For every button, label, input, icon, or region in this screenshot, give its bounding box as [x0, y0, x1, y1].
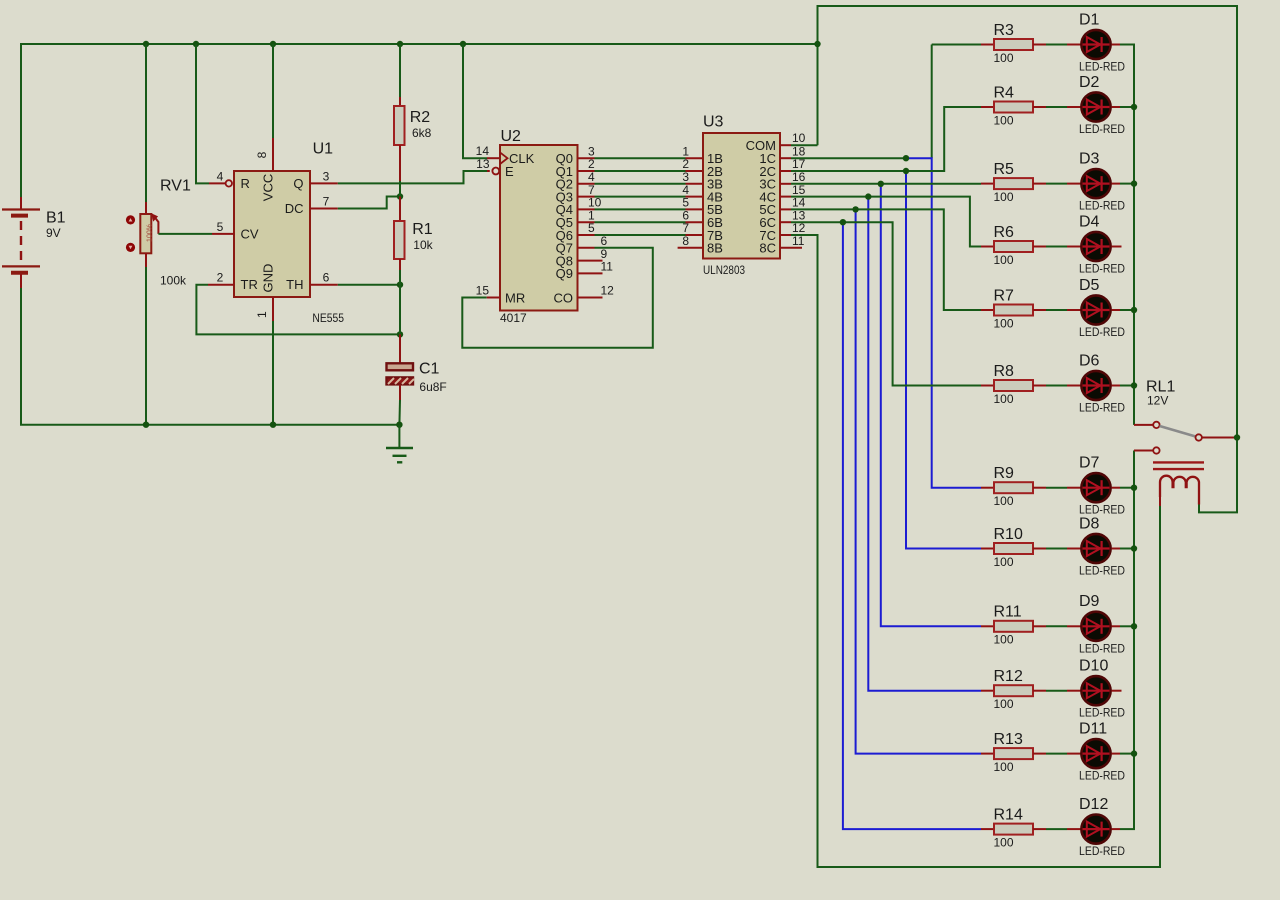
node 1C tap — [903, 155, 909, 161]
svg-text:6u8F: 6u8F — [419, 380, 446, 394]
svg-text:8B: 8B — [707, 241, 723, 256]
svg-text:8C: 8C — [759, 241, 776, 256]
resistor R1 10k — [394, 197, 434, 271]
svg-text:R1: R1 — [412, 221, 433, 238]
svg-text:100: 100 — [994, 51, 1014, 65]
resistor R5 100 — [981, 161, 1046, 204]
wire VCC to U1 pin8 — [272, 44, 274, 138]
LED D2 LED-RED — [1067, 74, 1135, 136]
svg-text:10k: 10k — [413, 238, 433, 252]
wire U2 pin15 MR loop from Q7 — [578, 247, 595, 249]
svg-text:VCC: VCC — [261, 174, 276, 201]
node bus junction y=107 — [1131, 104, 1137, 110]
svg-text:R11: R11 — [994, 604, 1022, 621]
wire U1 pin3 Q to U2 pin13 E — [310, 182, 338, 184]
svg-text:8: 8 — [682, 234, 689, 248]
svg-text:100: 100 — [994, 760, 1014, 774]
svg-text:TH: TH — [286, 277, 303, 292]
svg-text:U2: U2 — [501, 128, 522, 145]
wire RV1 wiper to U1 pin5 CV — [158, 233, 212, 235]
svg-text:100: 100 — [994, 253, 1014, 267]
svg-text:3: 3 — [323, 169, 330, 183]
svg-text:11: 11 — [792, 234, 805, 248]
resistor R9 100 — [981, 465, 1046, 508]
wire ground bottom rail — [20, 424, 399, 426]
resistor R11 100 — [981, 604, 1046, 647]
node bus junction y=548.5 — [1131, 545, 1137, 551]
svg-text:6k8: 6k8 — [412, 126, 432, 140]
wire U2 Q0 (pin 3) to U3 1B (pin 1) — [578, 157, 595, 159]
wire U3 pin11 8C stub — [780, 247, 802, 249]
svg-text:15: 15 — [476, 284, 490, 298]
svg-text:RV1: RV1 — [160, 177, 191, 194]
svg-text:LED-RED: LED-RED — [1079, 199, 1125, 213]
svg-text:D2: D2 — [1079, 74, 1100, 91]
svg-text:100%: 100% — [147, 224, 154, 242]
resistor R13 100 — [981, 731, 1046, 774]
node ground rail x=273 — [270, 422, 276, 428]
node 6C tap — [840, 219, 846, 225]
svg-text:DC: DC — [285, 201, 304, 216]
svg-text:R8: R8 — [994, 363, 1015, 380]
svg-text:LED-RED: LED-RED — [1079, 769, 1125, 783]
wire VCC top loop to right column — [818, 6, 1238, 512]
svg-text:100k: 100k — [160, 274, 187, 288]
svg-text:R5: R5 — [994, 161, 1015, 178]
wire cathode bus D7-D12 from relay NC — [1133, 451, 1135, 830]
node top rail junction x=400 — [397, 41, 403, 47]
relay RL1 12V switch — [1134, 379, 1234, 454]
wire U3 pin17 2C to R4 and R10 — [780, 170, 791, 172]
svg-text:100: 100 — [994, 494, 1014, 508]
svg-text:LED-RED: LED-RED — [1079, 564, 1125, 578]
LED D4 LED-RED — [1067, 213, 1125, 275]
node top rail junction x=196 — [193, 41, 199, 47]
svg-text:D10: D10 — [1079, 658, 1108, 675]
svg-text:R3: R3 — [994, 22, 1015, 39]
svg-text:U1: U1 — [313, 141, 334, 158]
wire left battery rail top — [20, 43, 22, 197]
resistor R14 100 — [981, 806, 1046, 849]
wire U3 pin16 3C to R5 and R11 — [780, 183, 791, 185]
svg-text:TR: TR — [241, 277, 258, 292]
svg-text:5: 5 — [217, 220, 224, 234]
wire R10 to D8 — [1046, 548, 1067, 550]
svg-text:D1: D1 — [1079, 11, 1100, 28]
svg-text:D9: D9 — [1079, 593, 1100, 610]
pin 13 inversion bubble — [492, 168, 499, 175]
RV1 actuator buttons — [126, 215, 135, 224]
LED D9 LED-RED — [1067, 593, 1135, 655]
svg-text:100: 100 — [994, 555, 1014, 569]
wire U1 pin6 TH to R1 bottom — [310, 284, 338, 286]
node ground rail x=399 — [396, 422, 402, 428]
svg-text:9V: 9V — [46, 226, 61, 240]
node pin6 junction — [397, 282, 403, 288]
wire R4 to D2 — [1046, 106, 1067, 108]
LED D7 LED-RED — [1067, 455, 1135, 517]
wire pin6 node to C1 — [399, 285, 401, 335]
svg-text:100: 100 — [994, 113, 1014, 127]
wire U1 pin7 DC to R1/R2 node — [310, 208, 338, 210]
svg-text:E: E — [505, 164, 514, 179]
svg-text:D5: D5 — [1079, 277, 1100, 294]
svg-text:LED-RED: LED-RED — [1079, 844, 1125, 858]
wire R9 to D7 — [1046, 487, 1067, 489]
svg-text:4017: 4017 — [500, 311, 527, 325]
svg-text:MR: MR — [505, 290, 525, 305]
transistor-array U3 ULN2803 — [703, 114, 780, 278]
wire left battery rail bottom — [20, 286, 22, 425]
resistor R8 100 — [981, 363, 1046, 406]
svg-text:U3: U3 — [703, 114, 724, 131]
node top rail junction x=146 — [143, 41, 149, 47]
node top rail junction x=463 — [460, 41, 466, 47]
node top rail junction x=273 — [270, 41, 276, 47]
LED D8 LED-RED — [1067, 515, 1135, 577]
svg-text:R12: R12 — [994, 668, 1023, 685]
relay RL1 coil — [1153, 462, 1204, 506]
node bus junction y=385.5 — [1131, 382, 1137, 388]
wire R3 to D1 — [1046, 44, 1067, 46]
wire C1 to ground rail — [398, 400, 401, 425]
svg-text:R2: R2 — [410, 109, 431, 126]
svg-text:4: 4 — [217, 169, 224, 183]
svg-text:C1: C1 — [419, 360, 440, 377]
svg-text:R13: R13 — [994, 731, 1023, 748]
wire U2 pin9 Q8 stub — [578, 260, 603, 262]
wire U2 Q5 (pin 1) to U3 6B (pin 6) — [578, 221, 595, 223]
svg-text:12: 12 — [601, 284, 615, 298]
svg-text:LED-RED: LED-RED — [1079, 401, 1125, 415]
svg-text:100: 100 — [994, 697, 1014, 711]
wire U2 pin11 Q9 stub — [578, 272, 603, 274]
LED D6 LED-RED — [1067, 352, 1135, 414]
node ground rail x=146 — [143, 422, 149, 428]
svg-text:R9: R9 — [994, 465, 1015, 482]
node 3C tap — [878, 181, 884, 187]
capacitor C1 6u8F (polarised) — [387, 360, 447, 400]
wire R8 to D6 — [1046, 385, 1067, 387]
node relay throw junction — [1234, 434, 1240, 440]
svg-text:ULN2803: ULN2803 — [703, 263, 745, 277]
wire U2 pin12 CO stub — [578, 297, 603, 299]
svg-text:7: 7 — [323, 195, 330, 209]
wire R7 to D5 — [1046, 309, 1067, 311]
node bus junction y=183.6 — [1131, 180, 1137, 186]
wire U1 pin2 TR loop — [208, 284, 234, 286]
svg-text:D12: D12 — [1079, 796, 1108, 813]
resistor R12 100 — [981, 668, 1046, 711]
wire R2 to pin7 node — [399, 181, 401, 197]
wire VCC top rail — [21, 43, 818, 45]
svg-text:2: 2 — [217, 271, 224, 285]
svg-text:1: 1 — [255, 311, 269, 318]
ground symbol — [386, 425, 413, 463]
svg-text:LED-RED: LED-RED — [1079, 60, 1125, 74]
wire U3 pin13 6C to R8 and R14 — [780, 221, 791, 223]
svg-text:LED-RED: LED-RED — [1079, 122, 1125, 136]
wire R1 to pin6 node — [399, 270, 401, 285]
svg-text:100: 100 — [994, 633, 1014, 647]
wire U3 pin10 COM to VCC — [780, 144, 791, 146]
resistor R3 100 — [981, 22, 1046, 65]
wire U2 Q4 (pin 10) to U3 5B (pin 5) — [578, 208, 595, 210]
wire U1 pin4 reset from rail — [196, 44, 209, 183]
resistor R6 100 — [981, 224, 1046, 267]
LED D3 LED-RED — [1067, 150, 1135, 212]
svg-text:Q9: Q9 — [556, 266, 573, 281]
svg-text:LED-RED: LED-RED — [1079, 706, 1125, 720]
svg-text:5: 5 — [588, 221, 595, 235]
svg-text:D6: D6 — [1079, 352, 1100, 369]
node bus junction y=487.7 — [1131, 485, 1137, 491]
LED D1 LED-RED — [1067, 11, 1135, 73]
node 4C tap — [865, 193, 871, 199]
node 5C tap — [852, 206, 858, 212]
wire rail to R2 — [399, 44, 401, 97]
wire U3 pin14 5C to R7 and R13 — [780, 208, 791, 210]
node TR junction — [397, 331, 403, 337]
svg-text:12V: 12V — [1147, 394, 1168, 408]
potentiometer RV1 — [126, 177, 191, 287]
wire R13 to D11 — [1046, 753, 1067, 755]
wire rail to U2 pin14 CLK — [463, 44, 487, 158]
wire cathode bus D1-D6 to relay pole — [1133, 45, 1135, 425]
svg-text:R10: R10 — [994, 526, 1023, 543]
svg-text:6: 6 — [323, 271, 330, 285]
wire top rail to RV1 — [145, 44, 147, 202]
node pin7 junction — [397, 193, 403, 199]
svg-text:R: R — [241, 176, 250, 191]
wire R5 to D3 — [1046, 183, 1067, 185]
svg-text:100: 100 — [994, 190, 1014, 204]
svg-text:10: 10 — [792, 131, 806, 145]
resistor R2 6k8 — [394, 97, 432, 181]
svg-text:100: 100 — [994, 835, 1014, 849]
resistor R10 100 — [981, 526, 1046, 569]
wire U2 Q2 (pin 4) to U3 3B (pin 3) — [578, 183, 595, 185]
battery B1 — [2, 197, 66, 288]
svg-text:LED-RED: LED-RED — [1079, 262, 1125, 276]
svg-text:B1: B1 — [46, 210, 66, 227]
svg-text:D11: D11 — [1079, 720, 1107, 737]
pin 4 inversion bubble — [226, 180, 232, 186]
svg-text:R4: R4 — [994, 84, 1015, 101]
node bus junction y=310 — [1131, 307, 1137, 313]
counter U2 4017 — [500, 128, 578, 325]
svg-text:D7: D7 — [1079, 455, 1100, 472]
wire U3 pin18 1C to R3 and R9 — [780, 157, 791, 159]
svg-text:LED-RED: LED-RED — [1079, 641, 1125, 655]
wire U1 pin1 GND down — [272, 297, 274, 321]
RV1 wiper arrow — [156, 218, 159, 234]
svg-text:D4: D4 — [1079, 213, 1100, 230]
svg-text:100: 100 — [994, 392, 1014, 406]
svg-text:CO: CO — [554, 290, 574, 305]
LED D12 LED-RED — [1067, 796, 1135, 858]
svg-text:8: 8 — [255, 151, 269, 158]
LED D5 LED-RED — [1067, 277, 1135, 339]
svg-text:NE555: NE555 — [312, 311, 344, 325]
svg-text:GND: GND — [261, 264, 276, 293]
resistor R7 100 — [981, 287, 1046, 330]
svg-text:R7: R7 — [994, 287, 1015, 304]
resistor R4 100 — [981, 84, 1046, 127]
svg-text:100: 100 — [994, 316, 1014, 330]
LED D11 LED-RED — [1067, 720, 1135, 782]
wire U2 Q1 (pin 2) to U3 2B (pin 2) — [578, 170, 595, 172]
svg-text:11: 11 — [601, 260, 614, 274]
LED D10 LED-RED — [1067, 658, 1125, 720]
svg-text:CV: CV — [241, 226, 259, 241]
svg-text:LED-RED: LED-RED — [1079, 325, 1125, 339]
wire RV1 bottom to ground rail — [145, 267, 147, 425]
svg-text:13: 13 — [476, 157, 490, 171]
wire R6 to D4 — [1046, 246, 1067, 248]
node top rail junction x=817 — [814, 41, 820, 47]
svg-text:Q: Q — [293, 176, 303, 191]
wire R14 to D12 — [1046, 828, 1067, 830]
svg-text:R14: R14 — [994, 806, 1023, 823]
wire U2 Q3 (pin 7) to U3 4B (pin 4) — [578, 196, 595, 198]
svg-text:D8: D8 — [1079, 515, 1100, 532]
node 2C tap — [903, 168, 909, 174]
wire R12 to D10 — [1046, 690, 1067, 692]
wire U3 pin15 4C to R6 and R12 — [780, 196, 791, 198]
svg-text:D3: D3 — [1079, 150, 1100, 167]
node bus junction y=626.3 — [1131, 623, 1137, 629]
svg-text:R6: R6 — [994, 224, 1015, 241]
node bus junction y=753.6 — [1131, 750, 1137, 756]
wire U2 Q6 (pin 5) to U3 7B (pin 7) — [578, 234, 595, 236]
wire R11 to D9 — [1046, 625, 1067, 627]
op-amp U1 NE555 timer — [234, 138, 344, 325]
wire U3 pin12 7C to relay coil (bottom loop) — [780, 234, 791, 236]
wire U3 pin8 8B stub — [678, 247, 703, 249]
